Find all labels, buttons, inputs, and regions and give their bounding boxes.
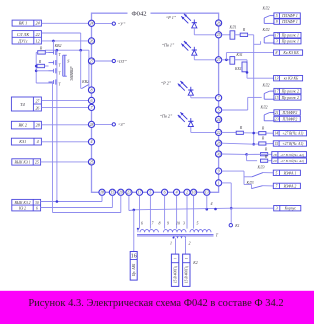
svg-text:КЛ2: КЛ2 <box>262 7 270 11</box>
svg-text:9: 9 <box>167 222 169 226</box>
svg-text:Пр разж 1: Пр разж 1 <box>281 40 299 44</box>
svg-text:Кв КЗ КБ: Кв КЗ КБ <box>282 51 299 55</box>
svg-text:23: 23 <box>127 190 131 195</box>
svg-text:ЭМВИБР: ЭМВИБР <box>70 66 74 81</box>
svg-text:25: 25 <box>35 160 39 164</box>
svg-text:9: 9 <box>218 169 220 174</box>
svg-text:Корпус: Корпус <box>284 207 297 211</box>
svg-text:1: 1 <box>218 180 220 185</box>
svg-text:10: 10 <box>176 222 180 226</box>
svg-text:15: 15 <box>110 190 114 195</box>
svg-text:4: 4 <box>37 139 39 144</box>
svg-text:18: 18 <box>273 153 277 157</box>
svg-text:15 В 400Гц: 15 В 400Гц <box>173 266 177 283</box>
svg-text:Т4: Т4 <box>20 102 26 107</box>
svg-text:15: 15 <box>274 142 278 146</box>
svg-text:КЗ1: КЗ1 <box>18 139 26 144</box>
svg-text:25: 25 <box>90 159 94 164</box>
svg-text:ПЛАФР 1: ПЛАФР 1 <box>281 14 298 18</box>
svg-text:ВЫК КЗ 1: ВЫК КЗ 1 <box>15 160 31 164</box>
svg-text:2: 2 <box>189 242 191 246</box>
svg-text:24: 24 <box>36 21 40 26</box>
svg-text:2: 2 <box>186 190 188 195</box>
svg-text:6: 6 <box>36 207 38 211</box>
svg-text:3: 3 <box>276 40 278 44</box>
svg-text:14: 14 <box>274 132 278 136</box>
svg-text:Пр разж 2: Пр разж 2 <box>281 90 299 94</box>
svg-text:8: 8 <box>159 222 161 226</box>
svg-text:24: 24 <box>217 117 221 122</box>
svg-text:ИЗФА 1: ИЗФА 1 <box>283 171 297 175</box>
svg-text:Пр разж 2: Пр разж 2 <box>281 96 299 100</box>
svg-text:30: 30 <box>217 151 221 156</box>
svg-text:“Р 2”: “Р 2” <box>161 80 172 85</box>
svg-text:КЛ2: КЛ2 <box>262 28 270 32</box>
svg-text:КЛ1: КЛ1 <box>229 26 237 30</box>
svg-text:ВК 1: ВК 1 <box>19 21 27 26</box>
svg-text:26: 26 <box>35 107 39 111</box>
svg-text:КЗ1: КЗ1 <box>235 53 242 57</box>
svg-text:18: 18 <box>100 190 104 195</box>
svg-text:КЛ2: КЛ2 <box>260 106 268 110</box>
svg-text:К1: К1 <box>234 224 240 228</box>
svg-text:ПЛАФР2: ПЛАФР2 <box>282 111 298 115</box>
svg-text:СЛ ЛК: СЛ ЛК <box>17 32 30 37</box>
svg-text:+27 В(Чг. А1): +27 В(Чг. А1) <box>282 132 304 136</box>
svg-text:К2: К2 <box>192 261 198 265</box>
svg-text:−: − <box>173 256 176 262</box>
svg-text:Пр. АВ1: Пр. АВ1 <box>132 263 136 277</box>
svg-text:КВ2: КВ2 <box>81 80 89 84</box>
svg-text:1: 1 <box>170 242 172 246</box>
svg-text:Пр разж 1: Пр разж 1 <box>281 34 299 38</box>
svg-text:ДУ1с: ДУ1с <box>17 39 28 44</box>
svg-text:25: 25 <box>217 32 221 37</box>
svg-text:24: 24 <box>90 21 94 26</box>
svg-text:4: 4 <box>91 139 93 144</box>
svg-text:21: 21 <box>275 111 279 115</box>
svg-text:ВК 2: ВК 2 <box>18 123 26 128</box>
svg-text:Рисунок 4.3. Электрическая схе: Рисунок 4.3. Электрическая схема Ф042 в … <box>28 298 283 309</box>
svg-text:ПЛАФР 1: ПЛАФР 1 <box>281 20 298 24</box>
svg-text:8: 8 <box>91 87 93 92</box>
svg-text:“У”: “У” <box>118 21 126 26</box>
svg-text:ПЛАФР2: ПЛАФР2 <box>282 118 298 122</box>
svg-text:“Р 1”: “Р 1” <box>166 15 177 20</box>
svg-text:КЗ 2: КЗ 2 <box>18 207 26 211</box>
svg-text:20: 20 <box>273 159 277 163</box>
svg-text:5: 5 <box>218 107 220 112</box>
svg-text:28: 28 <box>90 122 94 127</box>
svg-text:22: 22 <box>217 130 221 135</box>
svg-text:кл КЗ КБ: кл КЗ КБ <box>284 77 299 81</box>
svg-text:ВЫК КЗ 2: ВЫК КЗ 2 <box>15 201 31 205</box>
svg-text:“ОТ”: “ОТ” <box>116 59 127 64</box>
svg-text:15: 15 <box>275 96 279 100</box>
svg-text:13: 13 <box>205 190 209 195</box>
svg-text:КЛ2: КЛ2 <box>262 84 270 88</box>
svg-text:16: 16 <box>131 254 137 260</box>
svg-text:Ф042: Ф042 <box>131 10 146 17</box>
svg-text:23: 23 <box>275 118 279 122</box>
svg-text:5: 5 <box>275 171 277 175</box>
svg-text:6: 6 <box>91 98 93 103</box>
svg-text:+27 В(Чг. А1): +27 В(Чг. А1) <box>282 142 304 146</box>
svg-text:-27 В Об(Чг. А2): -27 В Об(Чг. А2) <box>280 153 305 157</box>
svg-text:-27 В Об(Чг. А2): -27 В Об(Чг. А2) <box>280 159 305 163</box>
svg-text:ИЗФА 2: ИЗФА 2 <box>283 184 297 188</box>
svg-text:6: 6 <box>164 190 166 195</box>
svg-text:8: 8 <box>276 51 278 55</box>
svg-text:“З”: “З” <box>118 122 126 127</box>
svg-text:6: 6 <box>141 222 143 226</box>
svg-text:12: 12 <box>36 39 40 44</box>
svg-text:3: 3 <box>183 222 185 226</box>
svg-text:4: 4 <box>211 201 213 206</box>
svg-text:9: 9 <box>276 20 278 24</box>
svg-text:15 В 400Гц: 15 В 400Гц <box>185 266 189 283</box>
svg-text:5: 5 <box>149 190 151 195</box>
svg-text:КЛ3: КЛ3 <box>257 165 265 169</box>
svg-text:26: 26 <box>90 38 94 43</box>
svg-text:3: 3 <box>276 207 278 211</box>
svg-text:22: 22 <box>36 32 40 37</box>
svg-text:26: 26 <box>217 20 221 25</box>
svg-text:“Пв 2”: “Пв 2” <box>160 114 173 119</box>
svg-text:28: 28 <box>217 141 221 146</box>
svg-text:13: 13 <box>275 77 279 81</box>
svg-text:4: 4 <box>176 190 178 195</box>
svg-text:5: 5 <box>276 14 278 18</box>
svg-text:~: ~ <box>185 256 188 262</box>
svg-text:20: 20 <box>119 190 123 195</box>
svg-text:30: 30 <box>35 201 39 205</box>
svg-text:5: 5 <box>197 222 199 226</box>
svg-text:“Пв 1”: “Пв 1” <box>162 42 175 47</box>
svg-text:КБ1: КБ1 <box>234 67 242 71</box>
svg-text:КВ2: КВ2 <box>54 44 62 48</box>
svg-text:10: 10 <box>192 190 196 195</box>
